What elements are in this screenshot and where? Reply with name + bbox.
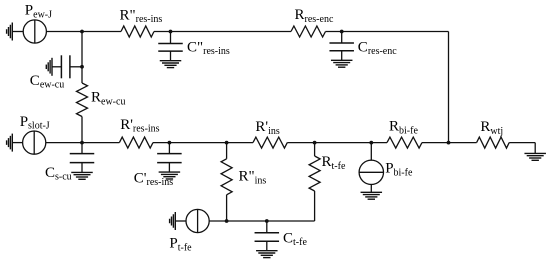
wire node to C_s-cu [81,143,83,154]
capacitor C_t-fe [255,233,279,242]
label R_t-fe [322,154,346,172]
resistor R'ins [253,137,287,148]
resistor R'res-ins [119,137,153,148]
node C''res-ins [169,30,173,34]
ground (below C''res-ins) [160,61,182,68]
wire C_t-fe to ground [266,241,268,250]
resistor R''ins [221,159,232,195]
svg-text:Rew-cu: Rew-cu [91,90,125,108]
wire node to C_t-fe [266,221,268,233]
svg-text:Rbi-fe: Rbi-fe [389,119,418,137]
label C_s-cu [45,165,72,183]
svg-text:Rwtj: Rwtj [480,119,503,137]
capacitor C_s-cu [70,154,95,163]
wire node to R_t-fe [314,143,316,156]
wire vertical branch: R_ew-cu to bottom rail [81,117,83,143]
ground (left of C_ew-cu) [46,58,52,76]
svg-text:Pbi-fe: Pbi-fe [385,161,413,179]
label C_res-enc [358,39,397,57]
ground (below C_t-fe) [256,251,278,258]
svg-text:C'res-ins: C'res-ins [134,170,173,188]
node R''ins top [225,141,229,145]
capacitor C_res-enc [329,43,354,51]
label R''ins [239,169,267,187]
wire ground to C_ew-cu [52,66,61,68]
label P_slot-J [20,114,50,132]
capacitor C_ew-cu [61,55,70,78]
resistor R_bi-fe [387,137,422,148]
wire C_s-cu to ground [81,163,83,173]
resistor R_ew-cu [77,83,88,117]
wire ground to P_slot-J [12,142,22,144]
wire node to P_bi-fe [370,143,372,161]
label C_t-fe [283,230,307,248]
wire node to C_res-enc [341,32,343,44]
ground (below C_s-cu) [71,172,93,179]
node R''ins bottom [225,219,229,223]
ground (left of P_slot-J) [7,134,13,152]
label P_ew-J [25,3,52,21]
svg-text:Rt-fe: Rt-fe [322,154,346,172]
wire C''res-ins to ground [170,51,172,61]
ground (left of P_ew-J) [7,23,13,41]
svg-text:Cew-cu: Cew-cu [30,73,64,91]
svg-text:Cres-enc: Cres-enc [358,39,397,57]
label R''res-ins [120,7,163,25]
label R_wtj [480,119,503,137]
svg-text:C"res-ins: C"res-ins [187,39,230,57]
svg-text:Pew-J: Pew-J [25,3,52,21]
wire C'res-ins to ground [168,163,170,173]
current source P_bi-fe [359,160,383,184]
ground (below P_bi-fe) [361,192,383,199]
label R_bi-fe [389,119,418,137]
wire ground to P_t-fe [175,220,186,222]
wire bottom rail: P_slot-J to R'res-ins [46,142,120,144]
label P_bi-fe [385,161,413,179]
wire ground to P_ew-J [12,31,23,33]
wire P_bi-fe to ground [370,184,372,192]
wire vertical branch: top rail to R_ew-cu [81,32,83,84]
wire node to C'res-ins [168,143,170,154]
resistor R_t-fe [309,156,320,191]
current source P_t-fe [186,209,209,232]
wire right vertical: top rail down to bottom rail [448,32,450,143]
svg-text:Pt-fe: Pt-fe [169,236,192,254]
svg-text:R'res-ins: R'res-ins [120,117,159,135]
wire node to R''ins [226,143,228,159]
node C_t-fe [265,219,269,223]
node bottom rail / vertical branch [80,141,84,145]
node R_t-fe top [313,141,317,145]
wire C_res-enc to ground [341,51,343,61]
node C_res-enc [340,30,344,34]
node C_ew-cu junction [80,65,84,69]
wire top rail: R_res-enc to corner [326,31,449,33]
wire down to right ground [534,143,536,154]
capacitor C''res-ins [158,44,183,52]
svg-text:Rres-enc: Rres-enc [295,7,334,25]
ground (left of P_t-fe) [170,212,176,230]
label P_t-fe [169,236,192,254]
capacitor C'res-ins [157,154,182,163]
current source P_slot-J [23,131,46,154]
wire R''ins to lower node [226,195,228,221]
label R_res-enc [295,7,334,25]
wire bottom rail: R_bi-fe to R_wtj [422,142,477,144]
wire bottom rail: R_wtj to ground [509,142,535,144]
node P_bi-fe [369,141,373,145]
wire R_t-fe to lower wire corner [314,191,316,221]
resistor R''res-ins [121,26,154,37]
ground (below C_res-enc) [331,60,353,67]
node right vertical junction [447,141,451,145]
label R'res-ins [120,117,159,135]
ground (right end) [524,153,546,160]
ground (below C'res-ins) [159,172,181,179]
wire lower: P_t-fe to corner [209,220,314,222]
wire bottom rail: R'ins to R_bi-fe [287,142,387,144]
resistor R_wtj [477,137,510,148]
label C_ew-cu [30,73,64,91]
label C'res-ins [134,170,173,188]
current source P_ew-J [23,20,46,43]
wire C_ew-cu to node [70,66,82,68]
svg-text:Pslot-J: Pslot-J [20,114,50,132]
wire top rail: R''res-ins to R_res-enc [154,31,291,33]
svg-text:R"ins: R"ins [239,169,267,187]
svg-text:Ct-fe: Ct-fe [283,230,307,248]
node top rail / vertical branch [80,30,84,34]
node C'res-ins [168,141,172,145]
svg-text:R"res-ins: R"res-ins [120,7,163,25]
label C''res-ins [187,39,230,57]
wire bottom rail: R'res-ins to R'ins [153,142,253,144]
resistor R_res-enc [291,26,326,37]
label R_ew-cu [91,90,125,108]
label R'ins [255,119,279,137]
svg-text:R'ins: R'ins [255,119,279,137]
svg-text:Cs-cu: Cs-cu [45,165,72,183]
wire top rail: P_ew-J to R''res-ins [46,31,121,33]
wire node to C''res-ins [170,32,172,44]
